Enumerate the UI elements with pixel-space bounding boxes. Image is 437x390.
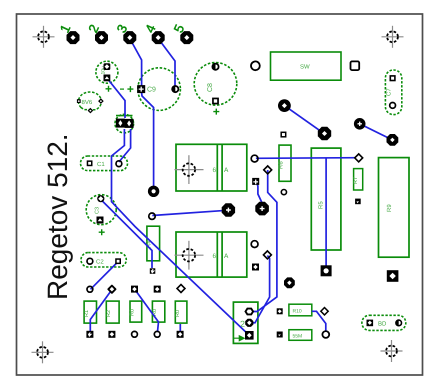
wire X3 to C3 to X2 square pad <box>112 129 250 335</box>
fiducial top-left <box>33 26 55 48</box>
small pad square white <box>281 132 286 137</box>
wire R8 right to ring pad <box>312 311 326 331</box>
capacitor C2 outline <box>81 253 126 267</box>
resistor R1 outline <box>84 301 96 323</box>
resistor R12 outline <box>152 301 164 322</box>
resistor row bottom square pad 1 <box>86 331 93 338</box>
svg-text:R2: R2 <box>106 310 112 317</box>
connector X2 hexagon pad <box>246 309 254 315</box>
connector X2 square pad <box>245 331 254 340</box>
capacitor C9 pin tick <box>120 88 124 90</box>
capacitor C4 outline <box>96 61 118 83</box>
transformer T1 bottom pad <box>387 270 399 282</box>
svg-text:R0: R0 <box>175 310 181 317</box>
via left mid <box>148 186 159 197</box>
transistor Q1 bottom pad <box>88 108 94 114</box>
wire R13 stub <box>179 324 181 334</box>
crystal X3 right pad <box>125 119 134 128</box>
capacitor C7 top pad <box>390 75 396 81</box>
via D octagon <box>387 134 399 146</box>
pad 2 <box>95 31 108 44</box>
svg-text:C7: C7 <box>386 88 393 96</box>
svg-text:BD: BD <box>378 321 387 328</box>
via A <box>278 99 291 112</box>
bottom right diamond pad <box>321 308 328 315</box>
relay K1 mount target <box>175 155 204 184</box>
svg-text:6: 6 <box>213 167 217 174</box>
relay K2 outline <box>176 232 247 277</box>
relay K2 mount target <box>175 241 204 270</box>
fiducial bottom-left <box>32 341 54 363</box>
resistor row top square pad 4 <box>154 286 161 293</box>
capacitor C8 plus mark <box>213 109 219 115</box>
relay K1 square pad <box>252 178 259 185</box>
svg-text:SW: SW <box>300 64 310 71</box>
capacitor C8 top pad <box>212 63 220 71</box>
resistor row top diamond pad 5 <box>177 285 185 293</box>
resistor row top square pad 3 <box>131 286 138 293</box>
resistor R9 left pad <box>277 332 283 338</box>
svg-text:C9: C9 <box>147 87 156 94</box>
fiducial top-right <box>382 26 404 48</box>
resistor R13 outline <box>175 301 187 323</box>
resistor row bottom ring pad 4 <box>154 331 160 337</box>
capacitor C4 bottom pad <box>104 75 111 82</box>
capacitor C9 outline <box>138 68 181 111</box>
resistor R6 outline <box>279 145 291 181</box>
resistor R3 top pad <box>149 213 155 219</box>
resistor row bottom square pad 5 <box>177 331 184 338</box>
relay K1 divider lines <box>217 144 222 191</box>
wire R5 internal <box>325 158 327 270</box>
wire K1 diamond pad to X2 diamond pad <box>250 170 277 312</box>
wire pad4 to C9 right <box>158 39 175 90</box>
capacitor C3 top pad <box>97 195 104 202</box>
resistor R5 bottom pad <box>321 265 332 276</box>
capacitor C7 outline <box>385 70 401 115</box>
capacitor C1 left pad <box>87 160 93 166</box>
relay K2 square pad <box>252 264 259 271</box>
resistor row top ring pad 1 <box>87 286 93 292</box>
connector X2 outline <box>233 302 258 343</box>
resistor R5 outline <box>311 148 341 250</box>
capacitor C9 left pad <box>137 85 145 93</box>
transistor Q1 right pad <box>98 98 104 104</box>
diode D3 outline <box>362 315 406 330</box>
capacitor C2 right pad <box>115 258 121 264</box>
relay K2 ring pad <box>251 241 258 248</box>
capacitor C3 plus mark <box>99 229 105 235</box>
resistor row bottom square pad 2 <box>108 331 115 338</box>
wire C9 left to via <box>141 89 153 190</box>
diode D3 right pad <box>395 319 402 326</box>
wire X3 right to C1 pad <box>119 129 131 162</box>
wire C2 to ring pad <box>91 262 119 290</box>
resistor R8 outline <box>289 304 312 316</box>
octagon via mid2 <box>255 202 269 216</box>
resistor R9 outline <box>289 330 312 341</box>
capacitor C9 plus mark <box>127 86 133 92</box>
svg-text:C3: C3 <box>95 207 101 214</box>
svg-text:R6: R6 <box>278 161 285 169</box>
resistor row top diamond pad 2 <box>107 284 117 294</box>
wire horizontal bus <box>256 157 358 160</box>
resistor R3 bottom pad <box>150 268 156 274</box>
pad near SW1 left <box>251 61 260 70</box>
via bottom mid octagon <box>284 277 295 288</box>
resistor row bottom ring pad 3 <box>132 331 138 337</box>
small hex pad <box>281 190 286 195</box>
svg-text:6: 6 <box>213 253 217 260</box>
relay K2 diamond pad <box>263 251 271 259</box>
svg-text:55M: 55M <box>293 333 303 339</box>
relay K1 outline <box>176 144 247 191</box>
wire K1 square pad to big via <box>257 183 263 204</box>
pad near SW1 right <box>351 61 360 70</box>
octagon via mid <box>222 203 235 216</box>
resistor R7 outline <box>354 169 363 190</box>
svg-text:C8: C8 <box>207 83 214 92</box>
pad 1 <box>67 31 80 44</box>
relay K1 ring pad <box>251 155 258 162</box>
svg-text:R5: R5 <box>318 201 325 209</box>
transistor Q1 left pad <box>77 99 81 103</box>
bus end diamond pad <box>355 154 363 162</box>
svg-text:R1: R1 <box>84 310 90 317</box>
capacitor C4 plus mark <box>106 86 112 92</box>
svg-text:R9: R9 <box>386 204 393 212</box>
svg-text:C2: C2 <box>96 259 104 266</box>
svg-text:A: A <box>224 253 229 260</box>
capacitor C4 top pad <box>104 63 111 70</box>
transformer T1 outline <box>379 158 410 258</box>
diode D3 left pad <box>367 320 374 327</box>
svg-text:8V6: 8V6 <box>82 99 93 106</box>
small arrow pad right <box>355 199 361 205</box>
pad 3 <box>123 31 136 44</box>
capacitor C3 bottom pad <box>97 217 104 224</box>
wire pad3 to C9 left <box>130 39 142 90</box>
fiducial bottom-right <box>381 340 403 362</box>
capacitor C8 outline <box>194 63 237 106</box>
svg-text:R7: R7 <box>353 177 359 184</box>
wire R3 top pad to octagon via <box>152 210 227 215</box>
svg-text:Regetov 512.: Regetov 512. <box>42 133 73 300</box>
crystal X3 top bar <box>116 115 133 117</box>
resistor R11 outline <box>130 301 142 322</box>
connector X2 octagon pad <box>245 319 253 327</box>
resistor R2 outline <box>106 301 119 323</box>
capacitor C2 left pad <box>87 258 93 264</box>
capacitor C9 right pad <box>171 85 179 93</box>
wire K2 diamond pad to X2 circle pad <box>250 256 270 323</box>
wire C3 top to R3 bottom pad <box>101 200 152 269</box>
crystal X3 left pad <box>116 119 125 128</box>
wire via to octagon via <box>284 106 323 133</box>
transistor Q1 outline <box>78 92 101 110</box>
wire C4 to X3 <box>107 78 125 118</box>
relay K1 diamond pad <box>264 166 272 174</box>
svg-text:A: A <box>224 167 229 174</box>
wire via to octagon via right <box>360 124 393 140</box>
capacitor C1 right pad <box>116 161 122 167</box>
capacitor C7 bottom pad <box>390 103 396 109</box>
connector X2 arrow <box>234 336 244 341</box>
crystal X3 outline <box>115 114 134 133</box>
pad 4 <box>152 31 165 44</box>
switch SW1 outline <box>271 52 342 80</box>
svg-text:C1: C1 <box>97 161 105 168</box>
capacitor C8 bottom pad <box>212 98 219 105</box>
bottom right ring pad <box>322 331 329 338</box>
capacitor C1 outline <box>81 156 128 171</box>
resistor R8 left pad <box>277 308 283 314</box>
capacitor C3 outline <box>86 195 116 225</box>
svg-text:R0: R0 <box>130 309 136 316</box>
svg-text:R10: R10 <box>293 308 302 314</box>
wire diamond pad through R1 <box>90 290 112 334</box>
wire pad to R12 bottom <box>135 289 159 332</box>
via C <box>354 118 366 130</box>
via B octagon <box>318 127 331 140</box>
pad 5 <box>180 31 193 44</box>
relay K2 divider lines <box>217 232 222 277</box>
resistor R3 outline <box>147 226 160 261</box>
